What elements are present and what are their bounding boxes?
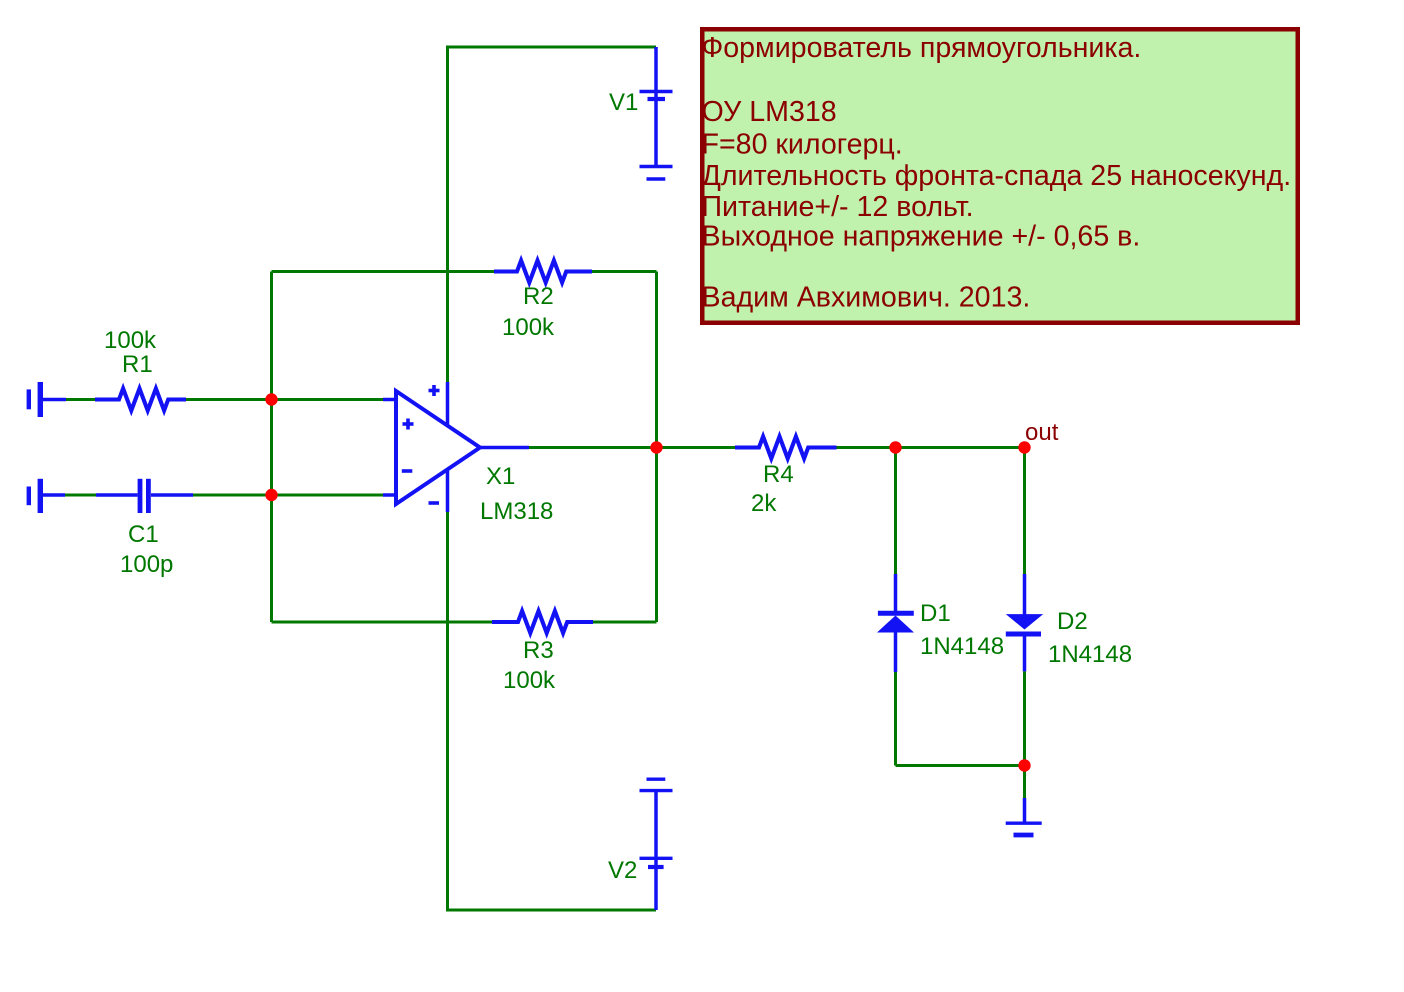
- svg-text:100k: 100k: [503, 667, 556, 694]
- svg-text:Выходное напряжение +/- 0,65 в: Выходное напряжение +/- 0,65 в.: [702, 221, 1141, 253]
- svg-text:R1: R1: [122, 351, 153, 378]
- svg-text:C1: C1: [128, 521, 159, 548]
- svg-text:D2: D2: [1057, 608, 1088, 635]
- svg-text:R4: R4: [763, 461, 794, 488]
- svg-text:100k: 100k: [104, 327, 157, 354]
- svg-text:1N4148: 1N4148: [1048, 641, 1132, 668]
- svg-text:100k: 100k: [502, 314, 555, 341]
- svg-text:D1: D1: [920, 600, 951, 627]
- svg-text:Формирователь прямоугольника.: Формирователь прямоугольника.: [702, 32, 1142, 64]
- svg-text:R3: R3: [523, 637, 554, 664]
- svg-text:V1: V1: [609, 89, 638, 116]
- svg-text:Питание+/- 12 вольт.: Питание+/- 12 вольт.: [702, 191, 974, 223]
- svg-text:X1: X1: [486, 463, 515, 490]
- svg-text:2k: 2k: [751, 490, 777, 517]
- svg-text:R2: R2: [523, 283, 554, 310]
- svg-text:V2: V2: [608, 857, 637, 884]
- svg-text:F=80 килогерц.: F=80 килогерц.: [702, 128, 903, 160]
- svg-text:out: out: [1025, 419, 1059, 446]
- svg-text:100p: 100p: [120, 551, 173, 578]
- svg-text:ОУ LM318: ОУ LM318: [702, 96, 837, 128]
- svg-text:Вадим Авхимович. 2013.: Вадим Авхимович. 2013.: [702, 282, 1031, 314]
- svg-text:1N4148: 1N4148: [920, 633, 1004, 660]
- svg-text:Длительность фронта-спада 25 н: Длительность фронта-спада 25 наносекунд.: [702, 160, 1292, 192]
- svg-text:LM318: LM318: [480, 498, 553, 525]
